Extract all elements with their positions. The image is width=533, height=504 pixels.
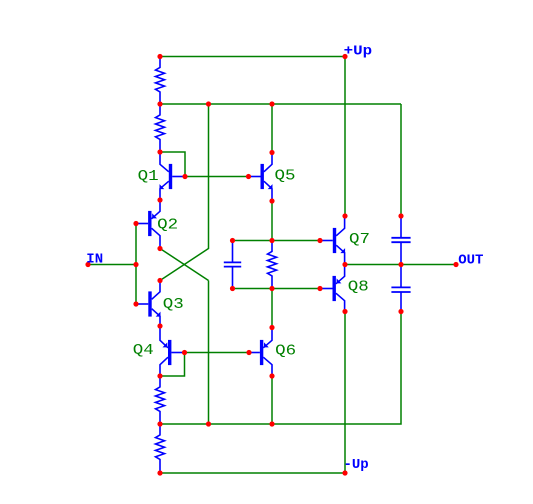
svg-text:Q6: Q6 bbox=[275, 343, 296, 359]
junction C2/C3 mid bbox=[398, 262, 403, 267]
label IN bbox=[86, 252, 103, 268]
node -Up bbox=[342, 470, 347, 475]
label Q3 bbox=[163, 297, 184, 313]
wire mid bus top y=240.5 bbox=[233, 240, 321, 242]
junction upper bus x=208.5 bbox=[206, 101, 211, 106]
transistor Q3 bbox=[136, 281, 161, 327]
junction C1 bottom bbox=[230, 286, 235, 291]
label Q2 bbox=[157, 217, 178, 233]
label Q7 bbox=[349, 232, 370, 248]
svg-text:Q8: Q8 bbox=[348, 280, 369, 296]
junction Q4 collector/R4 bbox=[157, 373, 162, 378]
wire vertical + cross diagonal to Q3C bbox=[160, 104, 209, 281]
wire right rail upper drop bbox=[400, 104, 402, 216]
wire Q8 collector to -Up bbox=[344, 312, 346, 474]
junction bottom bus x=272 bbox=[269, 421, 274, 426]
wire Q6 collector down bbox=[271, 376, 273, 424]
node IN terminal bbox=[85, 262, 90, 267]
junction R1/R2 bbox=[157, 101, 162, 106]
junction Q3 emitter/Q4 emitter bbox=[157, 323, 162, 328]
svg-text:Q2: Q2 bbox=[157, 217, 178, 233]
junction Q6 collector/R bbox=[269, 373, 274, 378]
junction Q4 base tie bbox=[182, 350, 187, 355]
junction upper bus x=272 bbox=[269, 101, 274, 106]
label Q1 bbox=[138, 169, 159, 185]
junction Q2 collector bbox=[157, 246, 162, 251]
capacitor C1 bbox=[224, 241, 241, 289]
resistor R3 bbox=[268, 241, 277, 289]
junction Q5 base pin bbox=[246, 174, 251, 179]
transistor Q8 bbox=[320, 265, 345, 312]
wire Q1 base-collector tie bbox=[160, 152, 185, 177]
junction Q5 emitter pin bbox=[269, 198, 274, 203]
wire base bus Q1 to Q5 bbox=[185, 176, 249, 178]
wire Q4 base to Q6 base bbox=[185, 352, 250, 354]
wire R3 bottom to Q6 emitter bbox=[271, 289, 273, 328]
svg-text:-Up: -Up bbox=[344, 457, 369, 473]
transistor Q2 bbox=[136, 200, 160, 249]
label Q6 bbox=[275, 343, 296, 359]
junction Q5 collector pin bbox=[269, 150, 274, 155]
svg-text:OUT: OUT bbox=[458, 253, 483, 269]
junction Q8 base pin bbox=[317, 286, 322, 291]
junction Q1 emitter/Q2 emitter bbox=[157, 197, 162, 202]
wire Q4 base-collector tie bbox=[160, 353, 185, 377]
wire output node to OUT bbox=[345, 264, 456, 266]
junction Q7 base pin bbox=[317, 238, 322, 243]
resistor R1 bbox=[156, 57, 165, 105]
wire IN to base bus bbox=[88, 264, 136, 266]
svg-text:Q3: Q3 bbox=[163, 297, 184, 313]
junction Q1 base tie bbox=[182, 174, 187, 179]
svg-text:+Up: +Up bbox=[344, 44, 373, 60]
junction R3 bottom bbox=[269, 286, 274, 291]
svg-text:Q7: Q7 bbox=[349, 232, 370, 248]
wire upper bus y=104 bbox=[160, 103, 401, 105]
junction +Up rail left bbox=[157, 54, 162, 59]
junction R4 bottom bus bbox=[157, 421, 162, 426]
wire -Up rail bbox=[160, 472, 345, 474]
capacitor C2 bbox=[391, 216, 410, 265]
wire +Up top rail bbox=[160, 56, 345, 58]
label Q4 bbox=[133, 343, 154, 359]
svg-text:IN: IN bbox=[86, 252, 103, 268]
label OUT bbox=[458, 253, 483, 269]
junction Q6 emitter pin bbox=[269, 325, 274, 330]
label +Up bbox=[344, 44, 373, 60]
wire +Up rail drop to Q7 collector bbox=[344, 57, 346, 217]
transistor Q1 bbox=[160, 152, 186, 200]
label -Up bbox=[344, 457, 369, 473]
junction Q7 collector pin bbox=[342, 213, 347, 218]
resistor R4 bbox=[156, 376, 165, 424]
capacitor C3 bbox=[391, 265, 410, 312]
junction IN tee bbox=[133, 262, 138, 267]
svg-text:Q4: Q4 bbox=[133, 343, 154, 359]
junction C2 top bbox=[398, 213, 403, 218]
transistor Q4 bbox=[160, 326, 185, 376]
node +Up bbox=[342, 54, 347, 59]
svg-text:Q5: Q5 bbox=[275, 168, 296, 184]
junction C3 bottom bbox=[398, 309, 403, 314]
label Q5 bbox=[275, 168, 296, 184]
junction bottom bus x=208.5 bbox=[206, 421, 211, 426]
junction Q3 base pin bbox=[133, 301, 138, 306]
resistor R5 bbox=[156, 424, 165, 473]
wire lower vertical x=208.5 bbox=[208, 281, 210, 425]
junction Q2 base pin bbox=[133, 221, 138, 226]
transistor Q6 bbox=[249, 328, 272, 377]
junction C1 top bbox=[230, 238, 235, 243]
junction R2/Q1 collector bbox=[157, 149, 162, 154]
label Q8 bbox=[348, 280, 369, 296]
resistor R2 bbox=[156, 104, 165, 152]
junction Q6 base pin bbox=[246, 350, 251, 355]
wire Q5 collector to upper bus bbox=[271, 104, 273, 153]
node OUT terminal bbox=[453, 262, 458, 267]
junction R5/-Up rail bbox=[157, 470, 162, 475]
wire cross diagonal Q2C to lower vertical bbox=[160, 249, 209, 281]
wire Q5 emitter down bbox=[271, 201, 273, 241]
wire left base bus Q2-Q3 bbox=[135, 224, 137, 305]
transistor Q7 bbox=[320, 216, 345, 265]
junction Q8 collector pin bbox=[342, 309, 347, 314]
junction Q3 collector bbox=[157, 278, 162, 283]
junction R3 top bbox=[269, 238, 274, 243]
junction output node bbox=[342, 262, 347, 267]
transistor Q5 bbox=[249, 153, 273, 202]
svg-text:Q1: Q1 bbox=[138, 169, 159, 185]
wire mid bus bottom y=288.5 bbox=[233, 288, 321, 290]
wire bottom bus and right rail lower bbox=[160, 312, 401, 425]
